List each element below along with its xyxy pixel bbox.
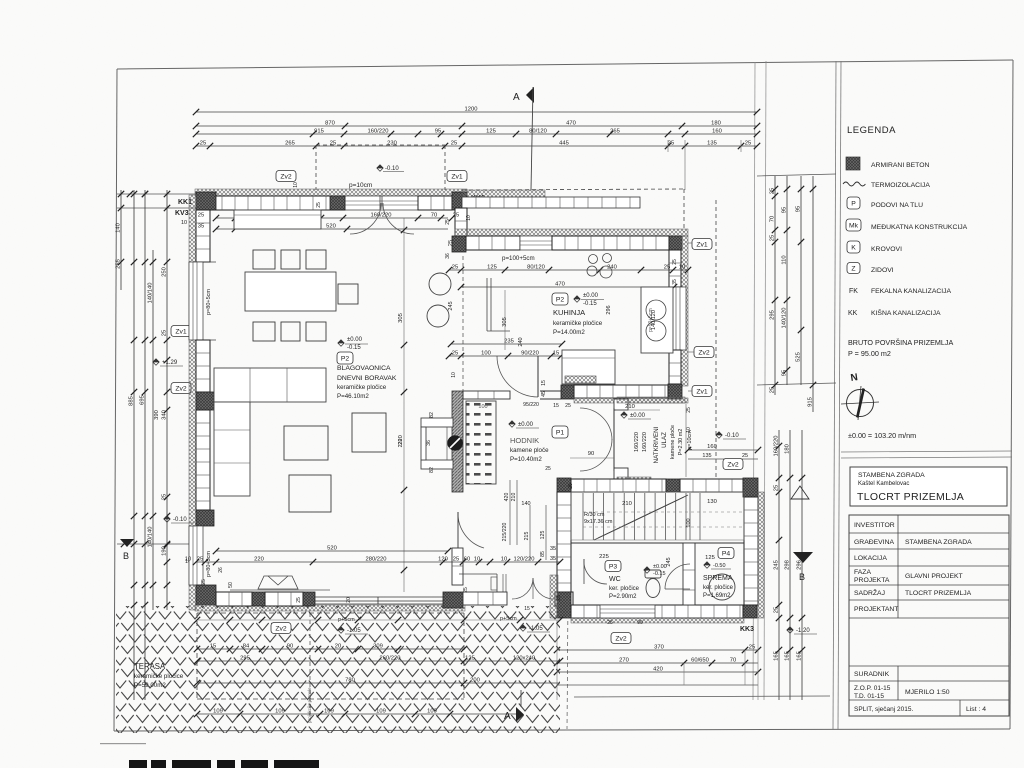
kitchen lower dim chain: [446, 351, 578, 360]
svg-text:35: 35: [550, 546, 556, 552]
svg-text:10: 10: [466, 215, 472, 221]
svg-text:25: 25: [668, 141, 674, 147]
svg-text:15: 15: [553, 403, 559, 409]
hodnik top wall: [463, 391, 510, 399]
svg-text:520: 520: [327, 546, 337, 552]
floor label P2 kitchen: [552, 293, 568, 305]
FK sewage label: [645, 480, 669, 492]
svg-text:25: 25: [774, 607, 780, 613]
svg-text:90/220: 90/220: [521, 351, 539, 357]
top wall living east part: [418, 196, 452, 210]
svg-text:ker. pločice: ker. pločice: [609, 586, 640, 592]
svg-text:kamene ploče: kamene ploče: [670, 425, 676, 459]
svg-text:215: 215: [524, 532, 530, 541]
svg-text:NATKRIVENI: NATKRIVENI: [653, 426, 660, 463]
svg-text:25: 25: [198, 213, 204, 219]
living right vertical dims: [398, 240, 454, 473]
svg-text:95: 95: [435, 129, 441, 135]
sofa L-shape: [214, 368, 326, 496]
stove flue circle: [448, 436, 463, 451]
room label WC: [609, 576, 640, 600]
svg-text:-1.05: -1.05: [529, 626, 543, 632]
svg-text:P2: P2: [341, 356, 350, 363]
svg-text:25: 25: [545, 466, 551, 472]
thermal strip top wall living: [195, 189, 467, 196]
left stub dim lines: [117, 191, 196, 208]
svg-text:ULAZ: ULAZ: [661, 432, 668, 448]
column kitchen top-right: [669, 236, 682, 250]
side table right: [352, 413, 386, 452]
porch parapet bottom west: [617, 477, 651, 483]
kitchen window right wall: [672, 287, 686, 350]
svg-text:STAMBENA ZGRADA: STAMBENA ZGRADA: [905, 539, 972, 546]
svg-text:240: 240: [607, 265, 617, 271]
wall label Zv2 kitchen right: [694, 347, 714, 358]
svg-text:25: 25: [770, 235, 776, 241]
svg-text:FK: FK: [849, 288, 858, 295]
svg-text:ARMIRANI BETON: ARMIRANI BETON: [871, 162, 930, 169]
svg-text:10: 10: [679, 265, 685, 271]
svg-text:25: 25: [201, 579, 207, 585]
svg-text:109: 109: [275, 709, 285, 715]
svg-text:PODOVI NA TLU: PODOVI NA TLU: [871, 202, 923, 209]
svg-text:340: 340: [162, 410, 168, 420]
svg-text:List : 4: List : 4: [966, 706, 986, 713]
kitchen bottom wall: [574, 385, 668, 398]
left dim chain 885: [129, 190, 138, 700]
svg-text:165: 165: [797, 651, 803, 661]
legend symbol P: [847, 197, 860, 209]
right lower dim chain 2: [785, 430, 794, 700]
svg-text:P=2.90m2: P=2.90m2: [609, 594, 637, 600]
level sprema: [704, 562, 731, 569]
kitchen tall unit: [641, 287, 673, 353]
svg-text:265: 265: [285, 141, 295, 147]
svg-text:210: 210: [511, 493, 517, 502]
right dim chain 4: [808, 176, 817, 412]
terrace bottom dim 109s: [194, 709, 520, 718]
svg-text:15: 15: [524, 606, 530, 612]
svg-text:420: 420: [504, 493, 510, 502]
svg-text:TERASA: TERASA: [134, 662, 166, 671]
svg-text:keramičke pločice: keramičke pločice: [134, 673, 184, 680]
sheet frame: [114, 60, 1013, 731]
svg-text:125: 125: [486, 129, 496, 135]
wall label Zv2 top: [276, 171, 296, 182]
terrace vertical dashed line: [309, 613, 311, 714]
svg-text:keramičke pločice: keramičke pločice: [553, 320, 603, 327]
svg-text:KUHINJA: KUHINJA: [553, 308, 585, 317]
svg-text:25: 25: [445, 219, 451, 225]
svg-text:PROJEKTANT: PROJEKTANT: [854, 606, 898, 613]
svg-text:296: 296: [606, 305, 612, 314]
toilet: [645, 570, 661, 598]
coffee table 1: [284, 426, 328, 460]
kitchen right wall upper: [669, 250, 681, 287]
svg-text:Zv2: Zv2: [275, 626, 287, 633]
floor label P3: [605, 561, 621, 572]
svg-text:P2: P2: [556, 297, 565, 304]
svg-text:N: N: [850, 372, 859, 384]
svg-text:35: 35: [198, 224, 204, 230]
dim chain 870/470/180: [193, 121, 760, 130]
svg-text:180: 180: [711, 121, 721, 127]
wall label Zv1 left: [171, 326, 191, 337]
svg-text:Zv1: Zv1: [175, 329, 187, 336]
column kitchen top-left: [452, 236, 466, 252]
parapet wall p=10cm: [462, 197, 640, 208]
svg-text:109: 109: [213, 709, 223, 715]
left wall lower part: [196, 410, 210, 510]
svg-text:P = 95.00 m2: P = 95.00 m2: [848, 349, 891, 358]
understair wall: [571, 542, 744, 544]
svg-text:140/120: 140/120: [651, 310, 657, 330]
svg-text:370: 370: [654, 645, 664, 651]
svg-text:160/220: 160/220: [634, 432, 640, 452]
svg-text:135: 135: [707, 141, 717, 147]
svg-text:ker. pločice: ker. pločice: [703, 585, 734, 591]
svg-text:245: 245: [448, 301, 454, 310]
section line B left: [117, 541, 196, 547]
svg-text:298: 298: [785, 560, 791, 570]
legend swatch armirani beton: [846, 157, 860, 170]
wall label Zv2 terrace: [271, 623, 291, 634]
right dim chain 3: [796, 176, 805, 385]
tv bench bottom: [230, 576, 330, 590]
wc window bottom wall: [600, 605, 655, 618]
svg-text:25: 25: [162, 330, 168, 336]
svg-text:190: 190: [162, 546, 168, 556]
svg-text:A: A: [513, 92, 520, 103]
bottom wall west part: [216, 592, 252, 606]
svg-text:p+5cm: p+5cm: [500, 616, 517, 622]
svg-text:TLOCRT PRIZEMLJA: TLOCRT PRIZEMLJA: [857, 491, 964, 503]
svg-text:FEKALNA KANALIZACIJA: FEKALNA KANALIZACIJA: [871, 288, 952, 295]
living bottom dim chain: [185, 557, 563, 566]
svg-text:25: 25: [197, 557, 203, 563]
svg-text:P=2.30 m2: P=2.30 m2: [678, 429, 684, 456]
svg-text:KK: KK: [848, 310, 858, 317]
svg-text:160/220: 160/220: [368, 129, 389, 135]
svg-text:26: 26: [218, 567, 224, 573]
door living-hodnik lower: [458, 512, 484, 548]
svg-text:160/220: 160/220: [774, 436, 780, 457]
column top wall mid: [330, 196, 345, 210]
svg-text:LOKACIJA: LOKACIJA: [854, 555, 887, 562]
svg-text:FAZA: FAZA: [854, 569, 871, 576]
svg-text:±0.00: ±0.00: [630, 413, 646, 419]
dim 370 below wc: [554, 645, 761, 654]
living top inner dims: [198, 213, 459, 222]
door hodnik-terrace double: [512, 578, 554, 599]
svg-text:309: 309: [373, 644, 383, 650]
svg-text:15: 15: [541, 380, 547, 386]
title block header box: [850, 467, 1007, 506]
svg-text:36: 36: [445, 253, 451, 259]
svg-text:70: 70: [730, 658, 736, 664]
svg-text:160: 160: [707, 444, 717, 450]
svg-text:120x240: 120x240: [513, 656, 535, 662]
thermal strip kitchen right wall: [681, 236, 688, 386]
sprema door: [665, 564, 690, 589]
section marker A bottom: [504, 690, 524, 722]
left dim chain 250/340: [162, 190, 171, 610]
svg-text:255: 255: [116, 259, 122, 269]
svg-text:160/220: 160/220: [642, 432, 648, 452]
svg-text:-0.50: -0.50: [713, 563, 726, 569]
svg-text:25: 25: [453, 557, 459, 563]
svg-text:470: 470: [555, 282, 565, 288]
svg-text:125: 125: [540, 531, 546, 540]
svg-text:Mk: Mk: [849, 223, 859, 230]
svg-text:±0.00: ±0.00: [653, 564, 667, 570]
leader lines to wall labels: [688, 243, 694, 391]
kitchen vertical dims: [502, 290, 657, 350]
svg-text:-0.10: -0.10: [385, 166, 399, 172]
column wc block bottom-left: [557, 592, 571, 618]
kitchen right wall lower: [669, 350, 681, 384]
wall label Zv2 porch: [723, 459, 743, 470]
svg-text:25: 25: [452, 265, 458, 271]
floor label P1 hodnik: [552, 426, 568, 438]
svg-text:-0.15: -0.15: [653, 571, 666, 577]
svg-text:10: 10: [185, 557, 191, 563]
kitchen top dim chain: [446, 265, 691, 274]
svg-text:P=1.69m2: P=1.69m2: [703, 593, 731, 599]
coffee table 2: [289, 475, 331, 512]
column kitchen bottom-right: [668, 384, 682, 399]
entry double door: [580, 408, 614, 471]
svg-text:T.D. 01-15: T.D. 01-15: [854, 693, 884, 700]
svg-text:projekcija pergole: projekcija pergole: [307, 687, 312, 723]
svg-text:TERMOIZOLACIJA: TERMOIZOLACIJA: [871, 182, 930, 189]
svg-text:DNEVNI BORAVAK: DNEVNI BORAVAK: [337, 375, 397, 382]
thermal strip left wall living: [189, 195, 196, 610]
svg-text:445: 445: [559, 141, 569, 147]
svg-text:HODNIK: HODNIK: [510, 436, 539, 445]
svg-text:ZIDOVI: ZIDOVI: [871, 267, 894, 274]
svg-text:25: 25: [162, 494, 168, 500]
svg-text:84: 84: [243, 644, 250, 650]
svg-text:140/120: 140/120: [782, 308, 788, 329]
svg-text:STAMBENA ZGRADA: STAMBENA ZGRADA: [858, 472, 925, 479]
svg-text:25: 25: [451, 141, 457, 147]
svg-text:MEĐUKATNA KONSTRUKCIJA: MEĐUKATNA KONSTRUKCIJA: [871, 224, 968, 231]
level -0.10 porch: [716, 432, 746, 439]
room label HODNIK: [510, 436, 549, 463]
svg-text:95/220: 95/220: [523, 402, 539, 408]
svg-text:25: 25: [774, 485, 780, 491]
svg-text:90: 90: [287, 644, 293, 650]
svg-text:-0.15: -0.15: [347, 345, 361, 351]
svg-text:95: 95: [782, 207, 788, 213]
svg-text:110: 110: [782, 255, 788, 264]
svg-text:260/220: 260/220: [380, 656, 401, 662]
svg-text:BRUTO POVRŠINA PRIZEMLJA: BRUTO POVRŠINA PRIZEMLJA: [848, 338, 954, 347]
svg-text:120: 120: [438, 557, 448, 563]
svg-text:125: 125: [465, 656, 475, 662]
svg-text:35: 35: [672, 279, 678, 285]
svg-text:-0.10: -0.10: [173, 517, 187, 523]
svg-text:25: 25: [686, 407, 692, 413]
legend symbol Z: [847, 263, 860, 274]
dashed opening line above fireplace wall: [462, 256, 464, 391]
entry wall lower piece: [614, 468, 628, 483]
svg-text:25: 25: [452, 351, 458, 357]
svg-text:305: 305: [398, 313, 404, 323]
column bottom-left corner: [196, 585, 216, 605]
wc door: [584, 559, 607, 584]
room label SPREMA: [703, 575, 734, 599]
right lower dim chain 1: [774, 430, 783, 700]
svg-text:45: 45: [541, 391, 547, 397]
svg-text:295: 295: [240, 656, 250, 662]
left dim chain 1: [116, 190, 125, 290]
left dim chain 695: [140, 190, 149, 700]
svg-text:220: 220: [254, 557, 264, 563]
svg-text:165: 165: [774, 651, 780, 661]
dim chain 915: [193, 129, 760, 138]
svg-text:270: 270: [619, 658, 629, 664]
column top-left corner: [196, 192, 216, 210]
svg-text:520: 520: [326, 224, 336, 230]
wall label Zv2 left: [171, 383, 191, 394]
svg-text:25: 25: [664, 265, 670, 271]
svg-text:A: A: [504, 711, 511, 722]
level porch: [621, 412, 651, 419]
svg-text:470: 470: [566, 121, 576, 127]
svg-text:BLAGOVAONICA: BLAGOVAONICA: [337, 365, 391, 372]
french doors top wall: [350, 196, 414, 234]
scan artifact marks bottom: [100, 743, 319, 768]
svg-text:P1: P1: [556, 430, 565, 437]
svg-text:125: 125: [705, 555, 715, 561]
svg-text:KK3: KK3: [740, 626, 754, 633]
kitchen top wall east: [552, 236, 669, 250]
svg-text:25: 25: [607, 620, 613, 626]
svg-text:TLOCRT PRIZEMLJA: TLOCRT PRIZEMLJA: [905, 590, 972, 597]
wall label Zv1 top: [447, 171, 467, 182]
svg-text:p=100+5cm: p=100+5cm: [502, 255, 535, 262]
svg-text:P3: P3: [609, 564, 618, 571]
bottom wall part 2: [265, 592, 303, 606]
svg-text:±0.00: ±0.00: [518, 422, 534, 428]
svg-text:80/120: 80/120: [529, 129, 547, 135]
svg-text:295: 295: [770, 310, 776, 320]
svg-text:695: 695: [140, 395, 146, 405]
thermal strip kitchen bottom: [574, 398, 688, 403]
entry wall upper piece: [614, 399, 628, 410]
svg-text:p=10cm: p=10cm: [349, 182, 372, 189]
column bottom wall 1: [252, 592, 265, 606]
svg-text:525: 525: [796, 352, 802, 362]
column wc block top-right: [743, 478, 758, 497]
svg-text:9x17.36 cm: 9x17.36 cm: [584, 519, 613, 525]
svg-text:SPREMA: SPREMA: [703, 575, 733, 582]
svg-text:-1.20: -1.20: [796, 628, 810, 634]
porch right edge line: [685, 404, 687, 477]
level living: [338, 337, 368, 351]
kitchen dim 235: [448, 339, 565, 348]
svg-text:180: 180: [785, 444, 791, 454]
svg-text:210: 210: [622, 501, 632, 507]
svg-text:Z.O.P. 01-15: Z.O.P. 01-15: [854, 685, 891, 692]
svg-text:390: 390: [154, 410, 160, 420]
svg-text:140/140: 140/140: [148, 283, 154, 304]
svg-text:10: 10: [686, 427, 692, 433]
svg-text:100: 100: [481, 351, 491, 357]
svg-text:±0.00 = 103.20 m/nm: ±0.00 = 103.20 m/nm: [848, 431, 916, 440]
north arrow: [841, 372, 879, 420]
top wall living west part: [196, 196, 345, 210]
wc block top wall east: [680, 479, 743, 492]
left dim chain 140/140: [148, 250, 157, 610]
svg-text:109: 109: [324, 709, 334, 715]
dim chain 25/265: [193, 141, 760, 150]
sliding terrace door bottom: [315, 597, 443, 604]
extra dim lines below wc: [557, 618, 830, 700]
dining chairs top: [253, 250, 326, 269]
svg-text:140: 140: [116, 223, 122, 233]
svg-text:P=14.00m2: P=14.00m2: [553, 329, 585, 336]
terrace hatch: [116, 606, 560, 733]
svg-text:B: B: [123, 551, 129, 561]
right dim terminator lines: [757, 174, 836, 385]
svg-text:keramičke pločice: keramičke pločice: [337, 384, 387, 391]
svg-text:780: 780: [345, 678, 355, 684]
svg-text:25: 25: [453, 213, 459, 219]
level -0.10 left: [164, 516, 194, 523]
svg-text:225: 225: [599, 554, 609, 560]
svg-text:36: 36: [426, 440, 432, 446]
right dim chain 1: [770, 176, 779, 395]
svg-text:109: 109: [376, 709, 386, 715]
svg-text:130: 130: [707, 499, 717, 505]
legend symbol K: [847, 241, 860, 253]
svg-text:90: 90: [588, 451, 594, 457]
svg-text:200: 200: [470, 678, 480, 684]
svg-text:P4: P4: [722, 551, 731, 558]
svg-text:140: 140: [521, 501, 530, 507]
dining chair right: [338, 284, 358, 304]
dim chain total 1200: [193, 107, 760, 116]
porch labels rotated: [634, 425, 693, 463]
hodnik small dims: [523, 380, 571, 409]
svg-text:25: 25: [463, 587, 469, 593]
thermal strip kitchen top wall: [455, 229, 688, 236]
kitchen counter bottom: [562, 350, 615, 384]
level hodnik: [509, 421, 539, 428]
svg-text:280/220: 280/220: [366, 557, 387, 563]
svg-text:25: 25: [568, 483, 574, 489]
level +1.29: [153, 359, 183, 366]
svg-text:15: 15: [553, 351, 559, 357]
thermal strip wc right: [758, 492, 764, 618]
svg-text:245: 245: [774, 560, 780, 570]
svg-text:10: 10: [451, 372, 457, 378]
svg-text:Zv1: Zv1: [696, 242, 708, 249]
dining chairs bottom: [253, 322, 326, 341]
column left wall mid: [196, 392, 214, 410]
level WC: [644, 564, 667, 577]
svg-text:10: 10: [293, 182, 299, 188]
svg-text:25: 25: [296, 597, 302, 603]
svg-text:25: 25: [200, 141, 206, 147]
svg-text:25: 25: [770, 387, 776, 393]
column wc block bottom-right: [743, 605, 757, 618]
kitchen counter left line: [487, 278, 510, 331]
svg-text:kamene ploče: kamene ploče: [510, 447, 549, 454]
